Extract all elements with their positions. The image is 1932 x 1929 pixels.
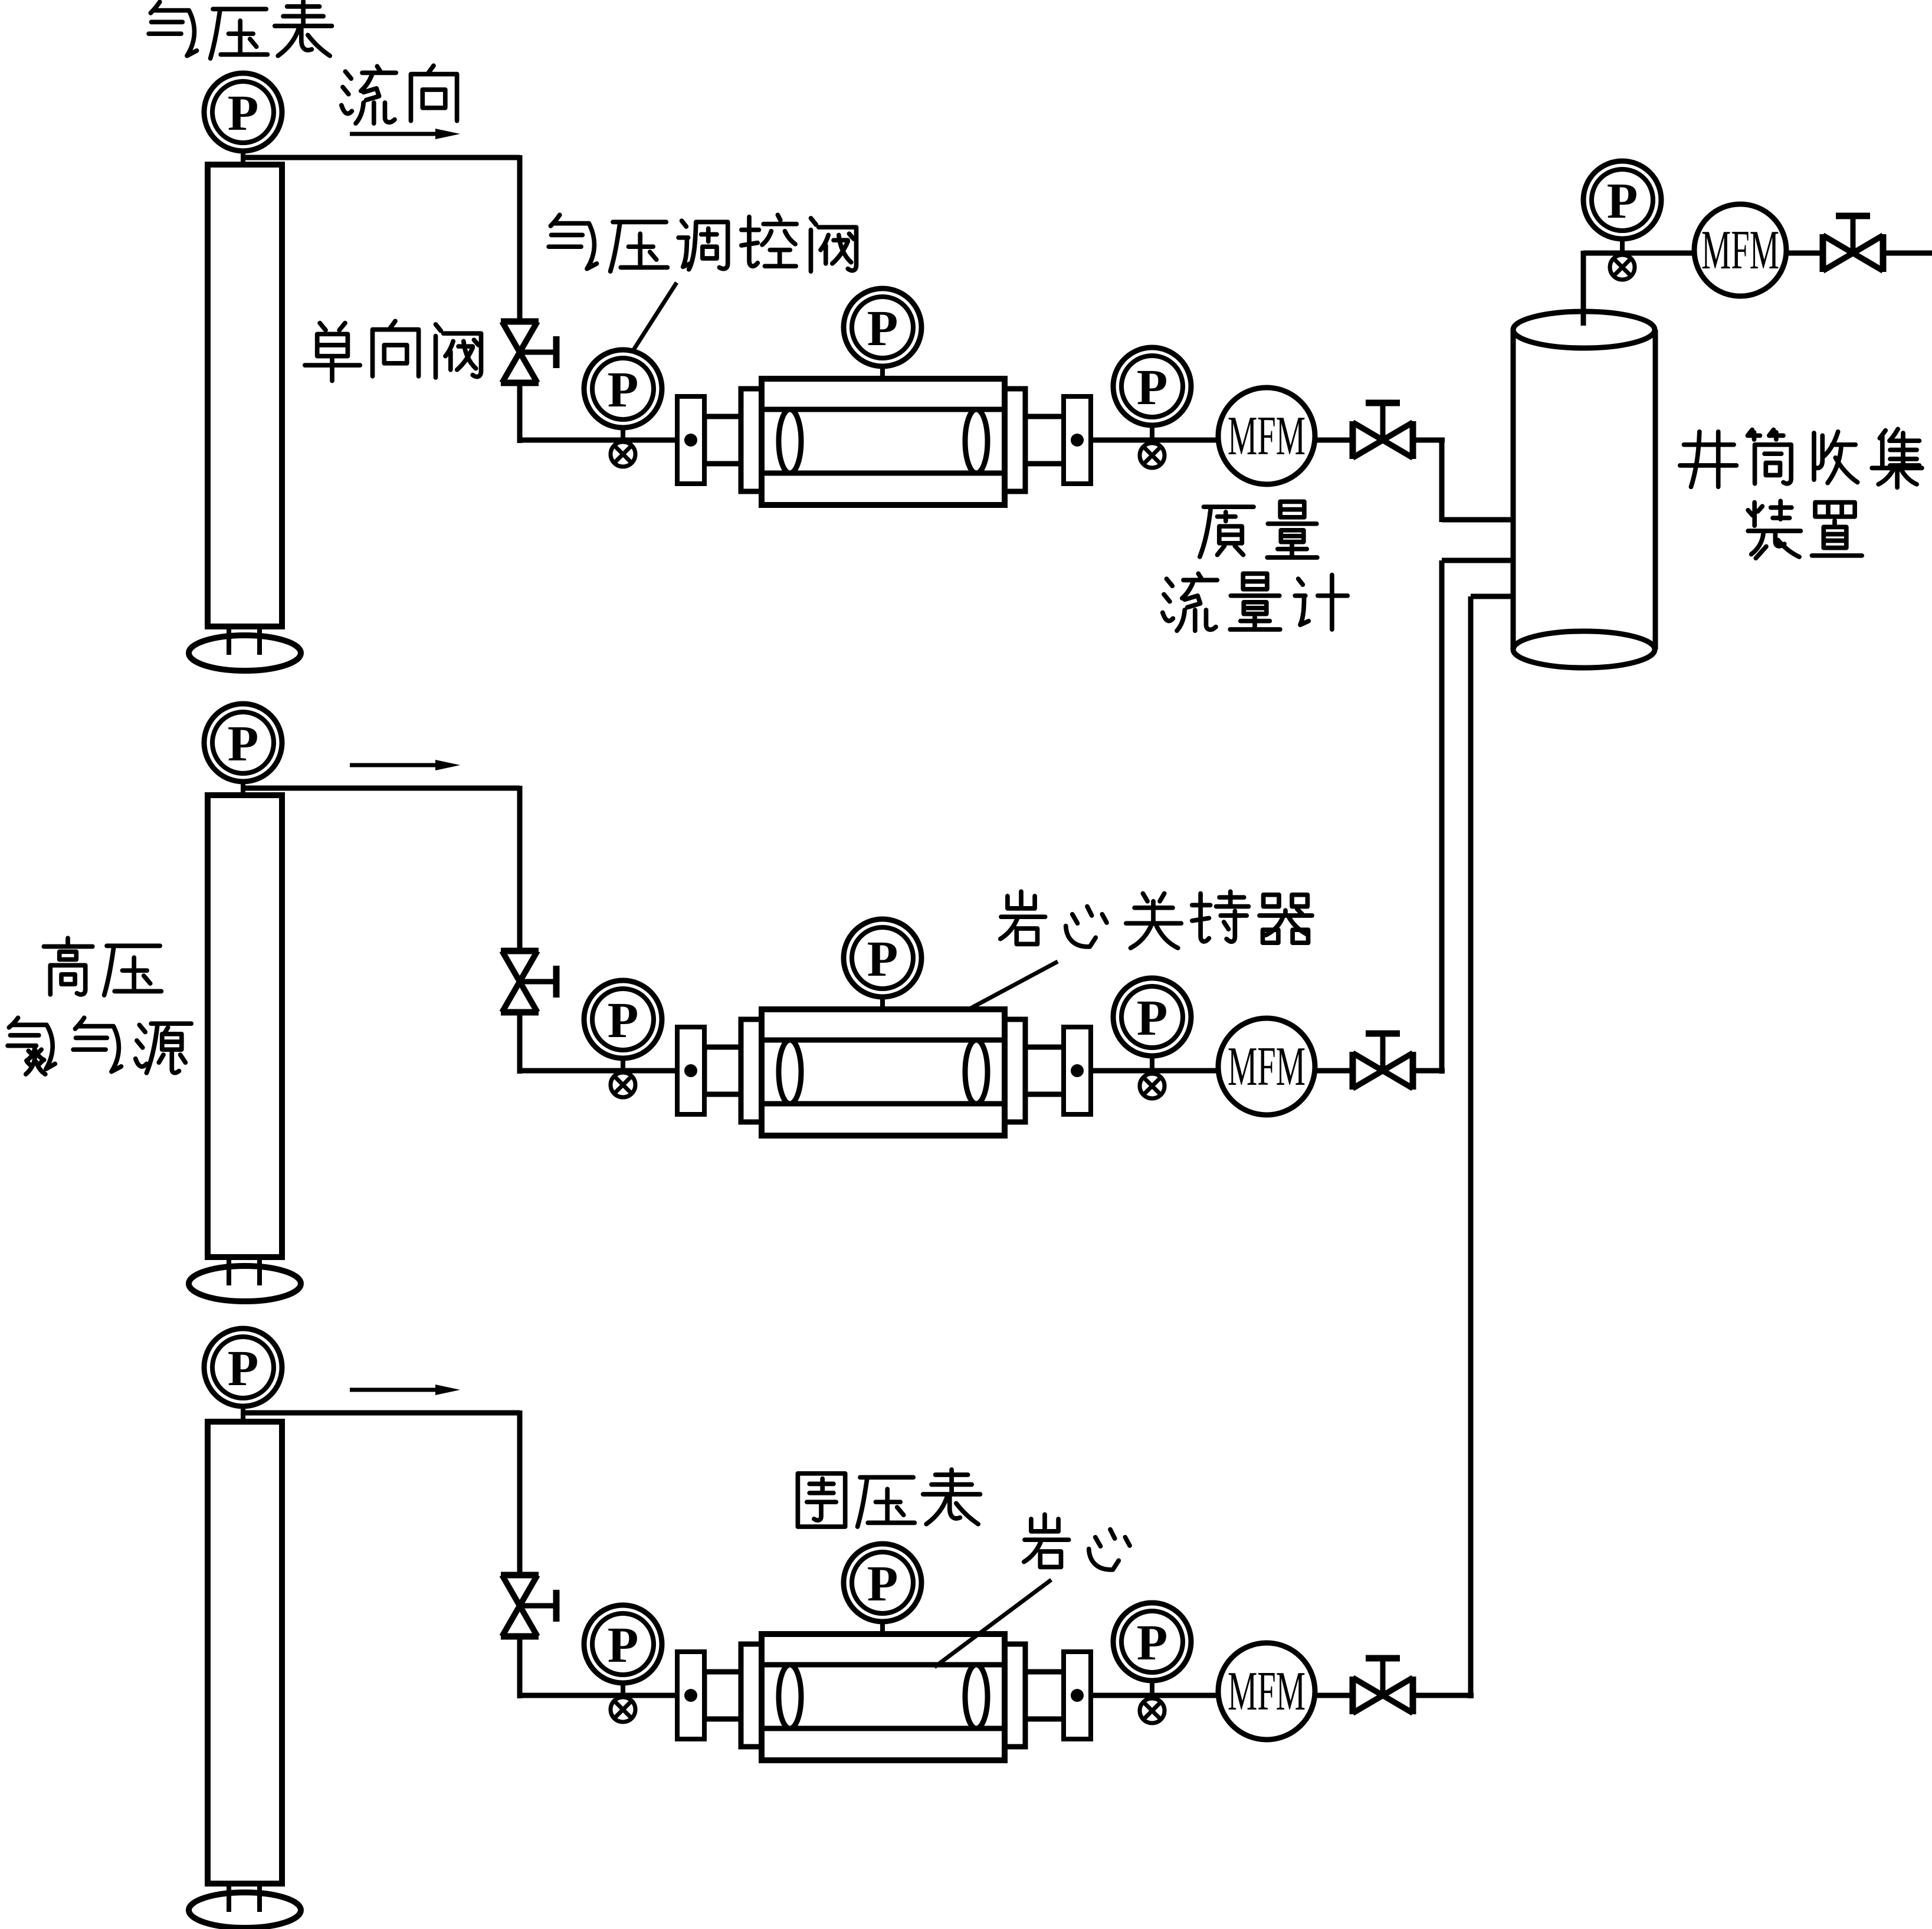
label liuliangji (flow meter) [1163,573,1217,631]
gauge stem P11 [621,1681,625,1697]
flow arrow row3 [350,1385,460,1395]
collector cylinder walls [1511,330,1516,649]
tap T11 [611,1697,635,1722]
pointer line to holder H2 [967,962,1058,1010]
gauge P9 [1113,978,1191,1056]
gauge P12 on holder [844,1544,921,1622]
gauge P7 [584,980,662,1058]
wire: to holder 3 inlet [517,1693,677,1698]
tap T2 [611,442,635,467]
valve V4 [1353,1034,1413,1090]
gauge stem P3 [880,365,885,381]
check valve V1 [501,321,556,383]
valve V7 [1353,1658,1413,1714]
valve V5 [1823,216,1883,272]
stub into collector row2 [1442,558,1516,563]
gauge stem P8 [880,995,885,1012]
gas cylinder 3 [189,1422,301,1928]
svg-text:MFM: MFM [1228,1661,1306,1722]
wire: cylinder3 gauge to right [243,1410,520,1416]
gauge stem P13 [1150,1678,1154,1698]
wire: MFM3 to valve V7 [1315,1693,1352,1698]
gauge P1 [204,73,282,151]
wire: cylinder1 gauge to right [243,155,520,160]
tap T9 [1140,1074,1165,1098]
wire: to holder 2 inlet [517,1068,677,1074]
riser B up [1439,560,1445,1074]
wire: down to valve V3 [517,786,523,953]
wire: MFM2 to valve V4 [1315,1068,1352,1074]
pointer line to core [934,1580,1051,1667]
gauge P3 on holder [844,288,921,366]
tap T4 [1140,443,1165,468]
svg-text:MFM: MFM [1228,1036,1306,1097]
label yanxin (core) [1024,1514,1069,1567]
collector top ellipse [1513,311,1655,348]
gauge stem P6 [241,778,245,796]
gauge stem P12 [880,1620,885,1636]
label weiyabiao (confining pressure gauge) [798,1474,845,1527]
wire: down to check valve [517,155,523,324]
gauge stem P4 [1150,423,1154,443]
core holder H1 [677,379,1091,505]
mass flow meter MFM4 [1694,204,1786,296]
flow arrow row1 [350,129,460,139]
stub into collector row3 [1471,594,1516,599]
gauge P10 [204,1328,282,1406]
label danxiangfa (check valve) [305,323,360,381]
collector bottom ellipse [1513,631,1655,668]
tap T7 [611,1072,635,1097]
label zhuangzhi (device) [1748,501,1800,558]
valve V6 [501,1575,556,1636]
svg-text:MFM: MFM [1701,219,1779,281]
pointer line to regulator gauge [632,283,677,352]
stub into collector row1 [1442,517,1516,523]
wire: MFM to valve [1315,438,1352,443]
gauge stem P1 [241,147,245,166]
wire: to holder inlet [517,438,677,443]
gauge stem P7 [621,1056,625,1072]
wire: cylinder2 gauge to right [243,786,520,791]
label yanxinjiachiqi (core holder) [1001,891,1045,944]
wire: valve V5 to edge [1885,251,1932,256]
gauge P13 [1113,1603,1191,1681]
gauge P5 [1583,161,1661,239]
gauge P6 [204,704,282,782]
label qiyabiao (pressure gauge) [149,2,196,55]
gauge stem P2 [621,425,625,442]
gauge P8 on holder [844,919,921,997]
collector riser [1581,251,1586,326]
wire: check valve to row axis [517,380,523,443]
label gaoya (high pressure) [44,938,93,995]
svg-text:MFM: MFM [1228,405,1306,467]
wire: holder2 to MFM2 [1091,1068,1221,1074]
riser C up [1468,596,1474,1698]
core holder H2 [677,1009,1091,1136]
label zhiliang (mass) [1200,507,1254,557]
label danqiyuan (nitrogen source) [8,1018,55,1074]
label qiyatiaokongfa (pressure regulating valve) [549,215,596,268]
mass flow meter MFM2 [1218,1018,1315,1115]
gauge stem P5 [1620,236,1625,255]
gauge stem P9 [1150,1054,1154,1074]
valve V3 [501,951,556,1012]
gauge P4 [1113,347,1191,425]
label jingtongshouji (wellbore collecting) [1680,432,1737,487]
gauge P11 [584,1605,662,1683]
gauge stem P10 [241,1403,245,1423]
gas cylinder 2 [189,795,301,1301]
wire: down to valve V6 [517,1410,523,1577]
wire: valve V6 to row axis [517,1634,523,1698]
wire: valve to riser A [1414,438,1445,443]
wire: holder to MFM [1091,438,1221,443]
wire: valve V4 to riser B [1414,1068,1445,1074]
riser A down [1439,438,1445,522]
gas cylinder 1 [189,165,301,671]
tap T13 [1140,1698,1165,1723]
wire: valve V7 to riser C [1414,1693,1474,1698]
gauge P2 regulator [584,350,662,428]
label liuxiang (flow direction) [342,66,396,123]
valve V2 [1353,403,1413,459]
tap T5 [1610,255,1635,280]
core holder H3 [677,1634,1091,1760]
mass flow meter MFM3 [1218,1643,1315,1740]
wire: valve V3 to row axis [517,1010,523,1074]
mass flow meter MFM1 [1218,388,1315,484]
wire: holder3 to MFM3 [1091,1693,1221,1698]
wire row0 [1583,251,1821,256]
flow arrow row2 [350,760,460,770]
